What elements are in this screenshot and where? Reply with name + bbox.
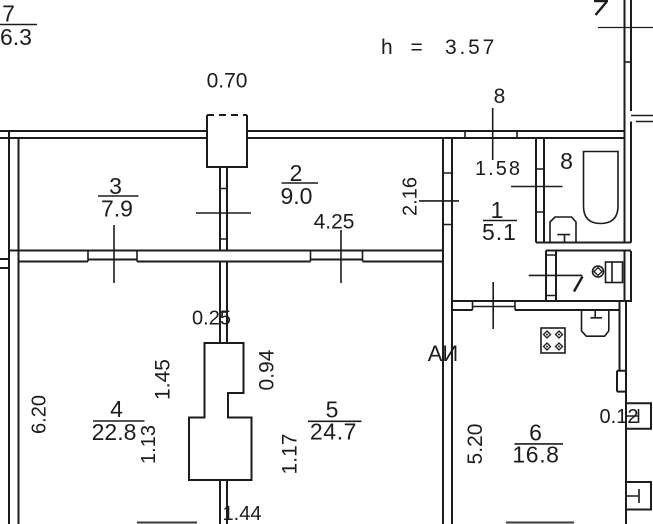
- wire partition rung below 0.25: [220, 311, 227, 313]
- svg-text:1.13: 1.13: [138, 425, 160, 464]
- washbasin: [550, 217, 576, 243]
- svg-text:6.20: 6.20: [29, 395, 51, 434]
- svg-text:24.7: 24.7: [310, 419, 357, 445]
- wire hall left wall rungs: [443, 173, 452, 225]
- dim tick toilet door: [529, 274, 583, 276]
- svg-text:0.25: 0.25: [192, 308, 231, 330]
- svg-text:1.58: 1.58: [475, 158, 522, 180]
- svg-text:2.16: 2.16: [400, 177, 422, 216]
- entry jamb ticks top wall: [465, 131, 517, 138]
- wire left wall inner: [18, 138, 20, 524]
- svg-text:5.20: 5.20: [464, 424, 487, 465]
- wire top outer wall: [0, 130, 624, 132]
- wire bathroom bottom wall: [536, 243, 631, 251]
- wire bathroom left wall rungs: [536, 169, 544, 212]
- wire window inner lines: [88, 259, 363, 261]
- door tick rooms 2|3: [196, 212, 251, 214]
- chimney box top center: [207, 115, 247, 167]
- dim tick 2.16: [419, 200, 459, 202]
- svg-text:8: 8: [560, 148, 573, 174]
- bathtub: [584, 152, 619, 224]
- dim tick bathroom door: [511, 186, 563, 188]
- svg-text:1.44: 1.44: [223, 503, 262, 524]
- dim tick room2 bottom (4.25): [340, 230, 342, 283]
- wire left wall outer: [8, 132, 10, 524]
- wire top right dim line: [598, 27, 653, 29]
- wire toilet bottom / kitchen top wall: [452, 300, 632, 302]
- wire bottom edge fragments: [137, 522, 574, 524]
- wire niche 2: [626, 482, 651, 510]
- label room 1: [482, 197, 517, 245]
- kitchen sink: [582, 310, 609, 336]
- toilet icon: [593, 262, 623, 283]
- wire top inner wall: [0, 137, 624, 139]
- svg-text:9.0: 9.0: [281, 183, 313, 209]
- wire kitchen top wall lower line: [452, 309, 620, 311]
- wire bathroom left wall: [536, 138, 544, 243]
- wire top right step lines: [631, 116, 653, 122]
- svg-text:7.9: 7.9: [101, 196, 133, 222]
- wire mid horizontal wall top line: [9, 250, 443, 252]
- label room 4: [92, 396, 145, 445]
- wire mid horizontal wall bottom line: [19, 261, 444, 263]
- label room 6: [512, 420, 563, 468]
- wire partition rungs: [220, 189, 227, 240]
- wire niche 2 detail: [626, 489, 639, 503]
- wire hall-toilet wall: [546, 251, 556, 302]
- wire central partition rooms 4|5 lower: [220, 480, 227, 524]
- wire window jambs room3: [88, 251, 137, 262]
- wire central partition rooms 4|5 upper: [220, 262, 227, 345]
- svg-text:8: 8: [494, 85, 506, 108]
- wire niche 1 detail: [626, 409, 639, 423]
- label room 2: [281, 160, 318, 209]
- svg-text:6.3: 6.3: [0, 24, 32, 50]
- svg-text:7: 7: [2, 1, 15, 27]
- wire window jambs room2: [311, 251, 363, 262]
- wire kitchen right pilaster: [617, 371, 626, 392]
- svg-text:1.17: 1.17: [279, 434, 302, 475]
- vent shaft polygon rooms 4|5: [189, 343, 252, 480]
- dim tick room3 bottom: [113, 225, 115, 283]
- svg-text:22.8: 22.8: [92, 419, 137, 445]
- dim tick entrance (8): [492, 108, 494, 160]
- svg-text:16.8: 16.8: [512, 442, 559, 468]
- wire top right wall pair: [625, 0, 632, 131]
- wire niche 1: [626, 403, 651, 429]
- wire hall left wall (rooms 2,5 right): [443, 138, 452, 524]
- label 7/6.3 top left: [0, 1, 37, 51]
- svg-text:1.45: 1.45: [152, 359, 175, 400]
- wire building right edge at toilet level: [630, 251, 632, 301]
- label 7 toilet stem: [574, 277, 583, 292]
- wire bathroom right wall: [625, 131, 632, 243]
- wire kitchen door segment: [473, 301, 516, 310]
- wire kitchen right wall outer: [625, 301, 627, 524]
- label 7 top right: [594, 1, 608, 15]
- dim tick kitchen door: [492, 282, 494, 329]
- wire top right wall rung: [625, 61, 632, 63]
- wire left balcony stub lines: [0, 259, 9, 268]
- svg-text:4.25: 4.25: [314, 211, 355, 234]
- wire toilet right wall: [624, 251, 626, 301]
- svg-text:0.70: 0.70: [207, 70, 248, 93]
- svg-text:5.1: 5.1: [482, 219, 517, 245]
- svg-text:0.12: 0.12: [600, 406, 639, 428]
- label room 3: [98, 173, 139, 222]
- svg-text:0.94: 0.94: [256, 349, 279, 390]
- stove: [541, 328, 565, 353]
- label room 5: [308, 397, 362, 445]
- wire hall-toilet wall rungs: [546, 255, 556, 296]
- wire central partition rooms 2|3: [220, 167, 227, 251]
- wire kitchen right wall inner: [619, 301, 621, 371]
